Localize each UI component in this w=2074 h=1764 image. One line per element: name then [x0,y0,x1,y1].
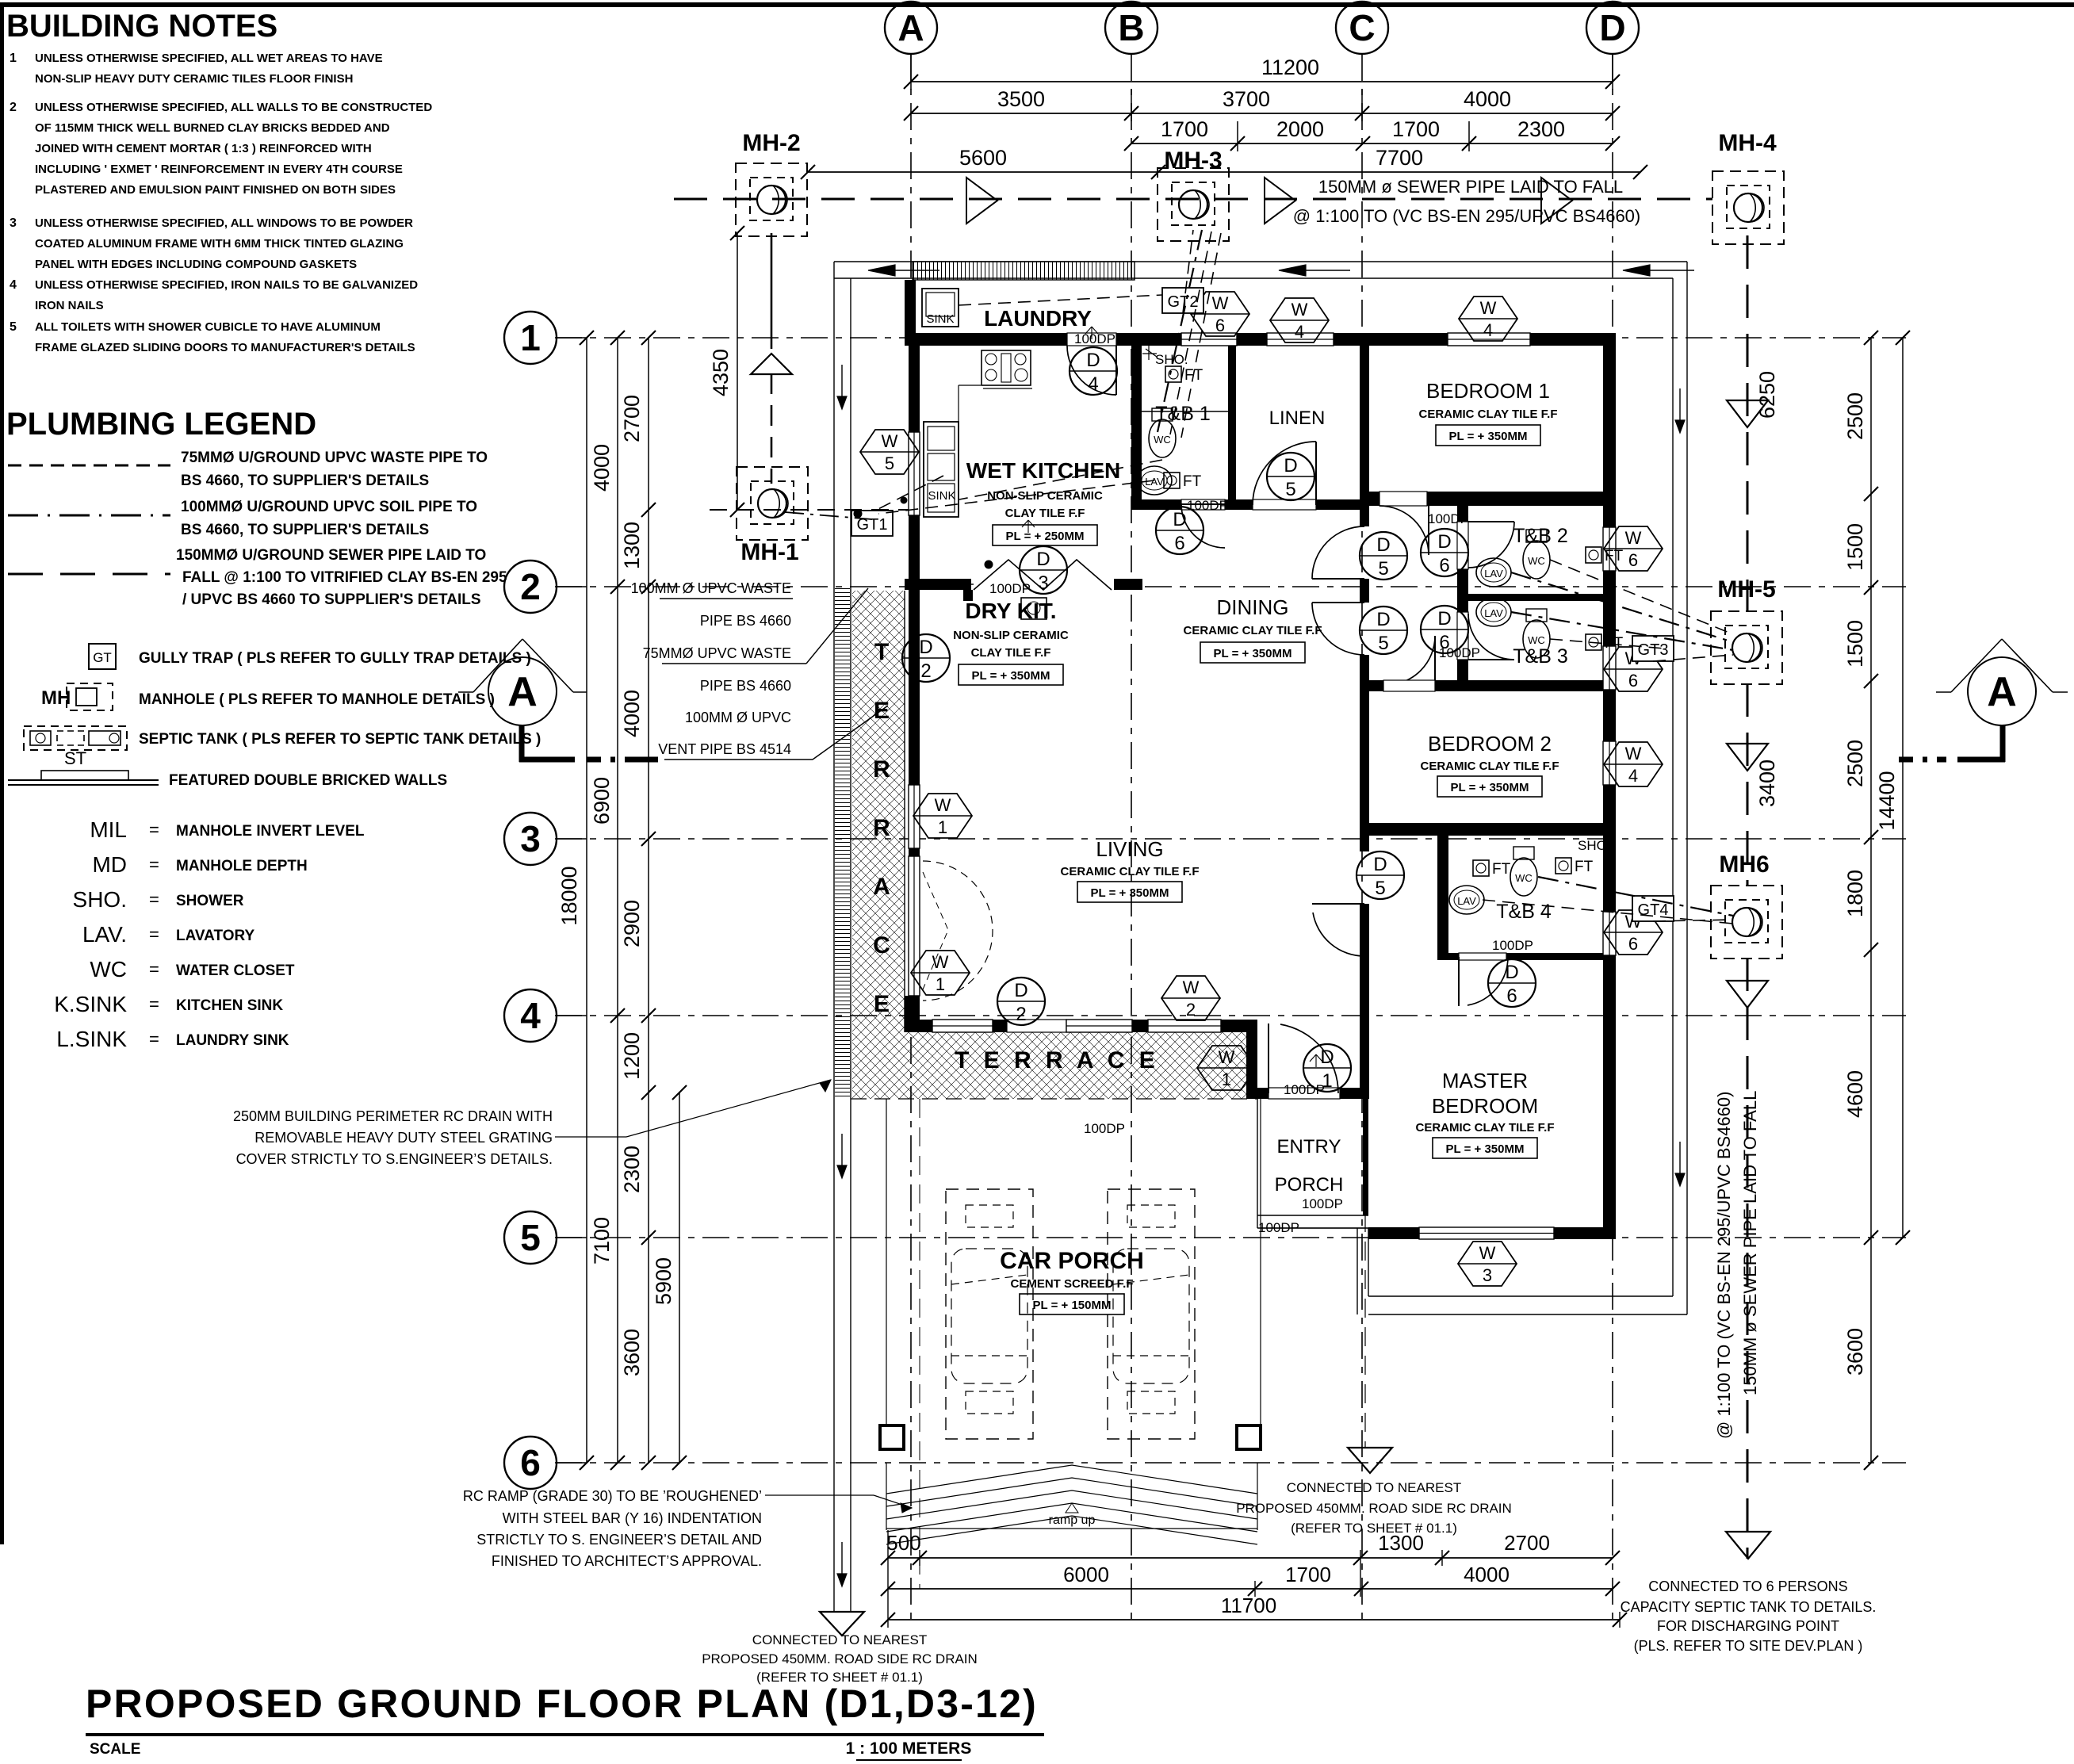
waste pipes T&B2/3 to MH-5 [1511,572,1733,642]
door D5 linen arc [1253,442,1316,505]
svg-text:MANHOLE ( PLS REFER TO MANHOL: MANHOLE ( PLS REFER TO MANHOLE DETAILS ) [139,691,495,708]
door tag D2 [997,978,1045,1025]
svg-text:STRICTLY TO S. ENGINEER’S: STRICTLY TO S. ENGINEER’S DETAIL AND [476,1532,762,1548]
svg-text:2: 2 [520,566,541,607]
kitchen sink double [924,422,959,517]
T&B4 door arc [1467,957,1508,1005]
svg-text:LAVATORY: LAVATORY [176,928,255,944]
svg-text:CERAMIC CLAY TILE F.F: CERAMIC CLAY TILE F.F [1415,1121,1554,1135]
svg-text:A: A [873,874,890,900]
T&B3 door arc [1468,614,1514,660]
svg-text:ALL TOILETS WITH SHOWER CUBICL: ALL TOILETS WITH SHOWER CUBICLE TO HAVE … [35,320,381,334]
svg-text:T: T [874,639,889,665]
svg-text:D: D [1373,854,1387,875]
door tag D5 [1267,453,1314,500]
svg-text:1800: 1800 [1843,870,1867,917]
LAV [1137,466,1172,495]
svg-text:100MMØ U/GROUND UPVC SOIL PIPE: 100MMØ U/GROUND UPVC SOIL PIPE TO [181,499,477,515]
master/entry door D5 arc [1313,913,1364,956]
east exterior wall [1603,346,1616,1239]
svg-text:4000: 4000 [1464,87,1511,111]
grid bubble 1 [504,312,557,364]
svg-text:WITH STEEL BAR (Y 16) IND: WITH STEEL BAR (Y 16) INDENTATION [503,1510,762,1526]
right dim column segments [1870,338,1872,1463]
door tag D6 [1156,507,1203,554]
door tag D6 [1421,529,1468,576]
bottom dim 11700 [888,1619,1620,1621]
manhole MH6 [1711,886,1782,959]
svg-text:PL = + 150MM: PL = + 150MM [1033,1299,1112,1312]
svg-text:MANHOLE DEPTH: MANHOLE DEPTH [176,858,308,874]
grid bubble B [1105,2,1158,54]
top dim 11200 [911,81,1613,82]
svg-text:5: 5 [1378,558,1388,580]
laundry sink [922,289,959,327]
svg-text:W: W [932,952,949,972]
WC [1510,858,1537,896]
svg-text:BEDROOM 2: BEDROOM 2 [1428,732,1552,756]
svg-text:3: 3 [10,216,17,230]
terrace dashed boundary [851,1098,1257,1100]
T&B2 west wall [1457,506,1468,683]
svg-text:MD: MD [92,852,127,877]
svg-text:2300: 2300 [620,1146,644,1193]
svg-text:WC: WC [1515,872,1533,884]
svg-text:3600: 3600 [620,1329,644,1376]
svg-text:3600: 3600 [1843,1328,1867,1376]
svg-text:FT: FT [1492,861,1511,878]
sewer vertical MH-4 to MH-5 to MH6 and south [1747,235,1749,611]
waste pipe T&B1 to GT1 [878,480,1154,514]
svg-text:100DP: 100DP [1084,1121,1125,1136]
bedroom2 south wall [1360,823,1616,836]
LAV [1476,558,1511,587]
svg-text:D: D [1376,609,1390,630]
svg-text:1500: 1500 [1843,620,1867,668]
svg-text:KITCHEN SINK: KITCHEN SINK [176,997,283,1014]
living SW corner post [905,996,920,1032]
svg-text:LAUNDRY SINK: LAUNDRY SINK [176,1032,289,1049]
svg-text:14400: 14400 [1875,771,1899,830]
svg-text:1: 1 [520,317,541,358]
svg-text:FT: FT [1575,859,1594,875]
svg-text:BUILDING NOTES: BUILDING NOTES [6,9,277,44]
svg-text:COVER STRICTLY TO S.ENGINEE: COVER STRICTLY TO S.ENGINEER’S DETAILS. [236,1151,553,1167]
svg-text:MH-1: MH-1 [740,539,798,565]
svg-text:D: D [1376,534,1390,556]
svg-text:4: 4 [1088,373,1098,395]
svg-text:PIPE BS 4660: PIPE BS 4660 [700,613,791,629]
car 2 dashed outline [1108,1189,1195,1439]
door tag D6 [1488,959,1536,1007]
dining corridor door arcs [1312,526,1364,579]
legend featured double bricked walls [8,779,159,781]
svg-text:WATER CLOSET: WATER CLOSET [176,962,295,979]
svg-text:LIVING: LIVING [1096,837,1163,861]
drain flow arrows top [868,265,895,276]
svg-text:CERAMIC CLAY TILE F.F: CERAMIC CLAY TILE F.F [1420,760,1559,773]
svg-text:CERAMIC CLAY TILE F.F: CERAMIC CLAY TILE F.F [1183,624,1322,637]
dim 4350 MH-2 to MH-1 [737,233,738,510]
svg-text:1: 1 [1222,1069,1231,1089]
svg-text:1200: 1200 [620,1032,644,1080]
svg-text:WC: WC [1528,555,1545,567]
svg-text:D: D [1599,7,1625,48]
svg-text:PANEL WITH EDGES INCLUDING COM: PANEL WITH EDGES INCLUDING COMPOUND GASK… [35,258,357,271]
gully trap GT3 [1632,636,1674,661]
svg-text:4000: 4000 [620,690,644,737]
svg-text:SHOWER: SHOWER [176,893,244,909]
svg-text:W: W [935,795,951,815]
svg-text:4: 4 [1295,322,1304,342]
kitchen counter line [958,385,959,515]
floor trap FT [1586,634,1601,650]
svg-text:2: 2 [920,660,931,682]
drain flow arrows vertical [841,365,843,396]
sewer main horizontal MH-2 to MH-4 [674,198,1712,201]
svg-text:L.SINK: L.SINK [56,1027,127,1051]
svg-text:GT: GT [93,650,112,665]
gully trap GT4 [1632,896,1674,921]
window tag W6 [1604,526,1663,571]
svg-text:FT: FT [1183,473,1202,490]
T&B4 south wall [1437,953,1616,960]
svg-text:1700: 1700 [1161,117,1208,141]
svg-text:6: 6 [1506,985,1517,1007]
svg-text:W: W [1479,1243,1496,1263]
svg-text:100DP: 100DP [1428,511,1469,526]
svg-text:100DP: 100DP [1492,938,1533,953]
svg-text:COATED ALUMINUM FRAME WITH 6MM: COATED ALUMINUM FRAME WITH 6MM THICK TIN… [35,237,404,251]
svg-text:D: D [1320,1047,1334,1068]
svg-text:T&B 1: T&B 1 [1155,403,1210,425]
shower heads [1142,346,1157,360]
laundry west wall [905,280,916,333]
svg-text:D: D [1505,962,1518,983]
svg-text:MANHOLE INVERT LEVEL: MANHOLE INVERT LEVEL [176,823,365,840]
window tag W6 [1604,647,1663,691]
manhole MH-3 [1158,168,1229,241]
svg-text:CAPACITY SEPTIC TANK TO DE: CAPACITY SEPTIC TANK TO DETAILS. [1621,1599,1877,1615]
svg-text:LAV.: LAV. [82,922,127,947]
svg-text:(REFER TO SHEET # 01.1): (REFER TO SHEET # 01.1) [1291,1521,1457,1536]
svg-text:LINEN: LINEN [1269,408,1326,429]
west drain grating hatch [835,587,850,1099]
row grid lines 1-6 [555,337,1906,339]
waste pipes T&B4 to MH6 [1538,877,1733,916]
svg-text:ENTRY: ENTRY [1277,1136,1341,1158]
left dim column 18000 [586,338,587,1463]
svg-text:BS 4660, TO SUPPLIER'S DETAILS: BS 4660, TO SUPPLIER'S DETAILS [181,522,429,538]
svg-text:5: 5 [1378,633,1388,654]
legend gully trap symbol [89,644,116,669]
svg-text:FINISHED TO ARCHITECT’S APP: FINISHED TO ARCHITECT’S APPROVAL. [492,1553,762,1569]
svg-text:3500: 3500 [997,87,1045,111]
svg-text:100DP: 100DP [1074,331,1115,346]
perimeter drain top (eaves) [834,261,1687,262]
right dim column 14400 [1902,338,1904,1238]
svg-text:1700: 1700 [1285,1563,1331,1586]
manhole MH-2 [736,163,807,236]
T&B1 / linen wall [1228,346,1236,507]
corridor / dining east wall [1360,510,1369,526]
svg-text:SHO.: SHO. [73,887,127,912]
svg-text:4350: 4350 [709,349,733,396]
svg-text:UNLESS OTHERWISE SPECIFIED, AL: UNLESS OTHERWISE SPECIFIED, ALL WET AREA… [35,52,383,65]
svg-text:5: 5 [1375,878,1385,899]
top dims 5600 7700 [808,171,1640,173]
door tag D5 [1360,532,1407,580]
grid bubble 3 [504,813,557,865]
ramp chevrons [886,1465,1257,1494]
svg-text:(PLS. REFER TO SITE DEV.PL: (PLS. REFER TO SITE DEV.PLAN ) [1634,1638,1863,1654]
svg-text:W: W [1212,293,1229,313]
manhole MH-1 [737,467,808,540]
svg-text:PIPE BS 4660: PIPE BS 4660 [700,678,791,694]
svg-text:VENT PIPE BS 4514: VENT PIPE BS 4514 [658,741,791,757]
svg-text:GT3: GT3 [1638,641,1669,659]
section marker A right [1968,657,2036,725]
svg-text:WC: WC [90,957,127,981]
svg-text:@ 1:100 TO (VC BS-EN 295/: @ 1:100 TO (VC BS-EN 295/UPVC BS4660) [1293,206,1641,226]
svg-text:CLAY TILE F.F: CLAY TILE F.F [971,646,1051,660]
T&B2 door arc [1468,522,1514,568]
floor trap FT [1586,547,1601,563]
LAV [1449,886,1484,914]
svg-text:100DP: 100DP [1187,498,1228,513]
svg-text:PL = + 350MM: PL = + 350MM [1449,430,1528,443]
top dims 1700 2000 1700 2300 [1131,143,1613,144]
svg-text:WC: WC [1154,434,1171,446]
grid bubble D [1586,2,1639,54]
svg-text:LAUNDRY: LAUNDRY [984,306,1092,331]
svg-text:D: D [1036,549,1050,570]
svg-text:K.SINK: K.SINK [54,992,127,1016]
svg-text:6: 6 [1628,671,1638,691]
gully trap GT2 [1162,288,1203,313]
svg-text:1: 1 [10,52,17,65]
svg-text:PROPOSED 450MM. ROAD SIDE RC D: PROPOSED 450MM. ROAD SIDE RC DRAIN [1236,1501,1512,1516]
svg-text:D: D [1437,608,1451,629]
perimeter drain south of master bedroom [1368,1295,1673,1297]
svg-text:PLUMBING LEGEND: PLUMBING LEGEND [6,407,316,442]
WC [1149,419,1176,457]
svg-text:MIL: MIL [90,817,127,842]
sewer branch MH-1 east [710,509,909,511]
svg-text:5: 5 [1285,479,1295,500]
svg-text:ST: ST [64,748,86,768]
svg-text:5900: 5900 [652,1257,675,1305]
svg-text:SEPTIC TANK ( PLS REFER TO SE: SEPTIC TANK ( PLS REFER TO SEPTIC TANK D… [139,731,541,748]
svg-text:=: = [149,890,159,909]
svg-text:W: W [1480,298,1497,318]
svg-text:UNLESS OTHERWISE SPECIFIED, AL: UNLESS OTHERWISE SPECIFIED, ALL WALLS TO… [35,101,432,114]
svg-text:150MM ø SEWER PIPE LAID T: 150MM ø SEWER PIPE LAID TO FALL [1318,177,1623,197]
svg-text:@ 1:100 TO (VC BS-EN 295/: @ 1:100 TO (VC BS-EN 295/UPVC BS4660) [1714,1092,1734,1440]
floor trap FT [1555,858,1571,874]
svg-text:W: W [1625,744,1642,763]
svg-text:PROPOSED 450MM. ROAD SIDE RC D: PROPOSED 450MM. ROAD SIDE RC DRAIN [702,1651,978,1666]
svg-text:CERAMIC CLAY TILE F.F: CERAMIC CLAY TILE F.F [1418,408,1557,421]
svg-text:4: 4 [1483,320,1493,340]
terrace south wall [905,1020,1257,1032]
svg-text:4: 4 [1628,766,1638,786]
window tag W2 [1161,976,1220,1020]
living south wall / entry [1257,1088,1368,1099]
bottom dims 6000 1700 4000 [888,1588,1613,1590]
svg-text:250MM BUILDING PERIMETER RC: 250MM BUILDING PERIMETER RC DRAIN WITH [233,1108,553,1124]
master south wall [1368,1227,1616,1239]
T&B1 linen south wall [1131,499,1369,510]
svg-text:PL = + 350MM: PL = + 350MM [1214,647,1292,660]
svg-text:4: 4 [10,278,17,292]
entry porch west line [1257,1099,1258,1228]
svg-text:W: W [1219,1047,1235,1067]
floor trap FT [1165,366,1181,382]
svg-text:A: A [507,669,538,715]
window tag W4 [1270,298,1329,342]
floor trap FT [1164,473,1180,488]
svg-text:1300: 1300 [620,522,644,569]
sewer flow triangles on main [966,178,997,224]
svg-text:SINK: SINK [926,312,954,326]
west exterior wall [909,333,920,1007]
svg-text:100DP: 100DP [1302,1196,1343,1211]
svg-text:INCLUDING ' EXMET ' REINFORCEM: INCLUDING ' EXMET ' REINFORCEMENT IN EVE… [35,163,403,176]
svg-text:C: C [1349,7,1375,48]
svg-text:RC RAMP (GRADE 30) TO BE: RC RAMP (GRADE 30) TO BE ’ROUGHENED’ [463,1488,762,1504]
svg-text:150MM ø SEWER PIPE LAID T: 150MM ø SEWER PIPE LAID TO FALL [1740,1091,1760,1395]
svg-text:SCALE: SCALE [90,1741,140,1758]
svg-text:GULLY TRAP ( PLS REFER TO GULL: GULLY TRAP ( PLS REFER TO GULLY TRAP DET… [139,650,531,667]
left dim column 2700/1300/4000/2900/1200/2300/3600 [648,338,649,1463]
bottom dims 500 1300 2700 [888,1557,1613,1559]
svg-text:WC: WC [1528,634,1545,646]
svg-text:PL = + 350MM: PL = + 350MM [1446,1142,1525,1156]
svg-text:UNLESS OTHERWISE SPECIFIED, IR: UNLESS OTHERWISE SPECIFIED, IRON NAILS T… [35,278,418,292]
linen east / bedroom1 west wall [1360,346,1369,510]
svg-text:6900: 6900 [590,777,614,825]
svg-text:LAV: LAV [1484,568,1503,580]
window tag W4 [1459,297,1517,341]
svg-text:2900: 2900 [620,900,644,947]
svg-text:=: = [149,959,159,979]
svg-text:2700: 2700 [620,395,644,442]
entry porch south lines [1257,1215,1368,1216]
svg-text:=: = [149,1029,159,1049]
svg-text:T E R R A C E: T E R R A C E [955,1047,1159,1073]
east wall windows [1603,527,1616,571]
svg-text:=: = [149,820,159,840]
svg-text:100MM Ø UPVC WASTE: 100MM Ø UPVC WASTE [631,580,791,596]
svg-text:150MMØ U/GROUND SEWER PIPE LAI: 150MMØ U/GROUND SEWER PIPE LAID TO [176,547,486,564]
car porch side lines [886,1099,887,1425]
svg-text:PROPOSED GROUND FLOOR PLAN (D1: PROPOSED GROUND FLOOR PLAN (D1,D3-12) [86,1682,1038,1726]
master west wall [1360,836,1369,851]
svg-text:6000: 6000 [1063,1563,1109,1586]
bedroom2 west wall [1360,683,1369,823]
svg-text:BS 4660, TO SUPPLIER'S DETAILS: BS 4660, TO SUPPLIER'S DETAILS [181,473,429,489]
svg-text:E: E [874,991,890,1017]
svg-text:3: 3 [1038,572,1048,594]
svg-text:D: D [1086,350,1100,371]
manhole MH-5 [1711,611,1782,684]
svg-text:2500: 2500 [1843,740,1867,787]
WC [1523,541,1550,579]
svg-text:FT: FT [1605,635,1624,652]
svg-text:6: 6 [1174,533,1184,554]
svg-text:PORCH: PORCH [1275,1174,1344,1196]
svg-text:7700: 7700 [1376,146,1423,170]
svg-text:100DP: 100DP [1439,645,1480,660]
master south window W3 [1419,1227,1554,1239]
west wall window W1a [909,785,920,848]
svg-text:WET KITCHEN: WET KITCHEN [966,458,1120,483]
featured double-bricked wall top of laundry [913,262,1135,280]
svg-text:2: 2 [1186,1000,1196,1020]
dry kitchen east boundary [963,590,973,601]
floor trap FT [1473,860,1489,876]
svg-text:PLASTERED AND EMULSION PAINT F: PLASTERED AND EMULSION PAINT FINISHED ON… [35,183,396,197]
window tag W1 [911,951,970,995]
car porch columns [880,1425,904,1449]
svg-text:2: 2 [10,101,17,114]
svg-text:2500: 2500 [1843,392,1867,440]
svg-text:3: 3 [520,818,541,859]
terrace south wall openings [932,1020,993,1032]
svg-text:2000: 2000 [1276,117,1324,141]
terrace hatch west strip [852,591,905,1099]
svg-text:7100: 7100 [590,1217,614,1265]
soil/waste pipes MH-3 to T&B1 [1158,230,1202,432]
svg-text:REMOVABLE HEAVY DUTY STEEL: REMOVABLE HEAVY DUTY STEEL GRATING [254,1130,553,1146]
svg-text:11200: 11200 [1261,55,1319,79]
svg-text:T&B 3: T&B 3 [1513,645,1567,668]
svg-text:3400: 3400 [1755,760,1779,807]
svg-text:=: = [149,855,159,874]
window tag W4 [1604,742,1663,786]
door tag D4 [1070,347,1117,395]
svg-text:100DP: 100DP [1284,1082,1325,1097]
svg-text:C: C [873,932,890,959]
svg-text:3: 3 [1483,1265,1492,1285]
svg-text:A: A [1987,669,2017,715]
porch grid dashes [919,1099,920,1589]
entry porch east wall [1363,1099,1368,1215]
LAV [1476,598,1511,626]
svg-text:W: W [1183,978,1200,997]
svg-text:3700: 3700 [1223,87,1270,111]
legend 100mm soil pipe symbol [8,515,170,517]
svg-text:NON-SLIP HEAVY DUTY CERAMIC TI: NON-SLIP HEAVY DUTY CERAMIC TILES FLOOR … [35,72,353,86]
perimeter drain west [833,262,835,1612]
T&B2 T&B3 divider [1468,594,1616,601]
sheet top border [0,2,2074,7]
svg-text:CERAMIC CLAY TILE F.F: CERAMIC CLAY TILE F.F [1060,865,1199,878]
svg-text:PL = + 350MM: PL = + 350MM [1091,886,1169,900]
svg-text:100MM Ø UPVC: 100MM Ø UPVC [685,710,791,725]
svg-text:BEDROOM: BEDROOM [1432,1094,1538,1118]
svg-text:1 : 100 METERS: 1 : 100 METERS [846,1739,972,1758]
sewer branch MH-2 to MH-1 [771,233,773,349]
svg-text:75MMØ UPVC WASTE: 75MMØ UPVC WASTE [643,645,791,661]
svg-text:W: W [1291,300,1308,320]
svg-text:MH-4: MH-4 [1718,130,1777,156]
grid bubble 4 [504,989,557,1042]
svg-text:11700: 11700 [1221,1594,1276,1617]
section marker A left [488,657,557,725]
bedroom1 south wall [1369,492,1616,506]
